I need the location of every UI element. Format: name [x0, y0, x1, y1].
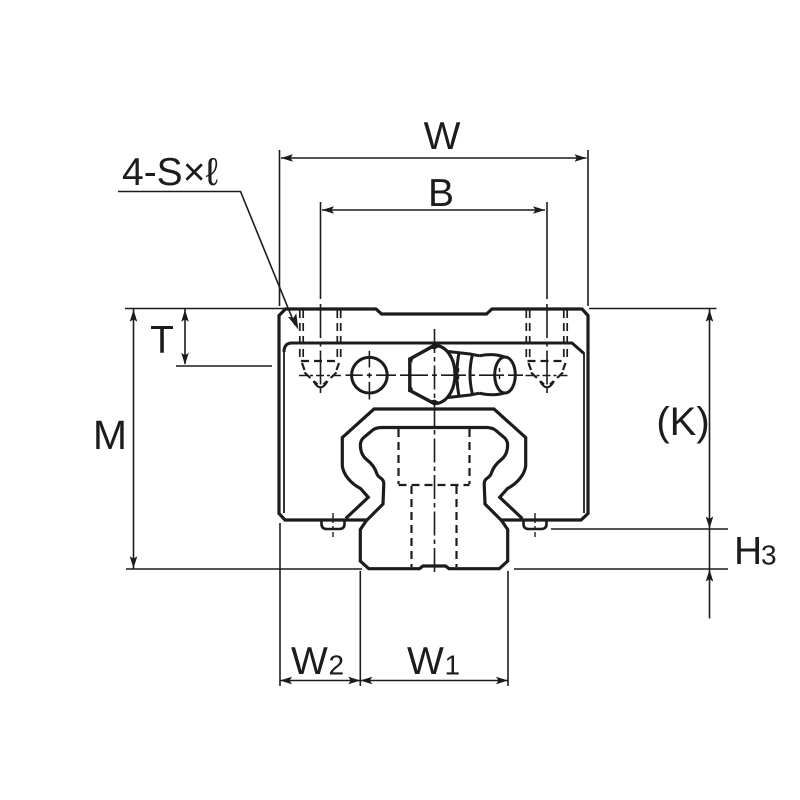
arrow H3-up — [706, 570, 714, 582]
seal lip / inner channel profile — [342, 409, 525, 519]
svg-text:4-S×ℓ: 4-S×ℓ — [122, 151, 218, 194]
block inner edge line right — [583, 353, 585, 513]
svg-text:(K): (K) — [656, 400, 709, 444]
arrow B-left — [322, 206, 334, 214]
circle vertical centerline — [368, 351, 370, 400]
nipple band 2 — [470, 354, 473, 394]
arrow W1-left — [360, 677, 372, 685]
nipple band 1 — [457, 353, 459, 396]
tab centerline left — [332, 513, 334, 537]
arrow M-top — [130, 310, 138, 322]
bolt hole left centerline — [320, 202, 322, 299]
rail mounting-bolt hole hidden lines — [399, 429, 470, 567]
W2/W1 extension line middle — [359, 571, 361, 686]
dimension K line — [709, 309, 711, 619]
arrow T-top — [181, 310, 189, 322]
dimension W line — [281, 157, 587, 159]
hex corner accents — [408, 344, 440, 406]
top extension line right (K) — [589, 308, 717, 310]
K bottom extension line (tab bottom level) — [551, 528, 728, 530]
dimension M line — [133, 309, 135, 569]
rail vertical centerline — [434, 329, 436, 576]
svg-text:M: M — [93, 412, 127, 458]
dimension W2/W1 line — [280, 680, 508, 682]
LM block outer profile — [279, 309, 588, 520]
leader line 4-S x l — [118, 192, 295, 326]
svg-text:1: 1 — [445, 650, 461, 681]
svg-text:T: T — [150, 319, 174, 362]
arrow T-bottom — [181, 353, 189, 365]
svg-text:W: W — [424, 115, 461, 158]
H3 bottom extension line — [514, 568, 728, 570]
dimension B line — [322, 209, 545, 211]
svg-text:B: B — [428, 172, 454, 215]
W2/W1 extension line left — [279, 523, 281, 686]
nipple neck bottom — [448, 393, 480, 397]
svg-text:2: 2 — [329, 650, 345, 681]
svg-text:W: W — [407, 640, 444, 683]
bottom seal tab right — [524, 521, 547, 530]
arrow M-bottom — [130, 556, 138, 568]
block inner edge line left — [283, 351, 285, 513]
arrow W-right — [575, 154, 587, 162]
svg-text:3: 3 — [761, 540, 777, 571]
svg-text:W: W — [291, 640, 328, 683]
nipple neck top — [448, 352, 480, 356]
arrow W1-right — [496, 677, 508, 685]
bolt hole right horizontal center tick — [526, 375, 569, 377]
dimension T line — [184, 309, 186, 364]
bolt hole left (4-S x l) hidden lines — [300, 310, 341, 385]
bolt hole right hidden lines — [526, 310, 567, 385]
dimension W extension line left — [279, 150, 281, 306]
arrow W2-left — [280, 677, 292, 685]
arrow B-right — [533, 206, 545, 214]
grease nipple hex — [410, 345, 435, 403]
dimension W extension line right — [587, 150, 589, 306]
W2/W1 extension line right — [507, 571, 509, 686]
grease nipple dome — [435, 345, 456, 403]
arrow leader — [288, 313, 298, 329]
counterbore circle — [352, 357, 388, 393]
bolt hole right centerline — [546, 202, 548, 299]
nipple center ticks — [458, 368, 460, 381]
arrow W2-right — [348, 677, 360, 685]
arrow W-left — [281, 154, 293, 162]
arrow K-top — [706, 310, 714, 322]
block inner plate line (end-seal boundary) — [284, 343, 584, 354]
bolt hole left horizontal center tick — [299, 375, 342, 377]
M bottom extension line — [126, 568, 362, 570]
bottom seal tab left — [322, 521, 345, 530]
svg-text:H: H — [734, 530, 762, 573]
rail cross-section outline — [360, 428, 507, 569]
horizontal centerline through circle and nipple — [346, 374, 524, 376]
nipple end ellipse — [495, 357, 516, 393]
tab centerline right — [534, 513, 536, 537]
arrow K-bottom — [706, 517, 714, 529]
nipple tip outline — [480, 355, 506, 358]
T lower extension line — [176, 365, 272, 367]
arrowheads — [130, 154, 714, 684]
top extension line left (M,T) — [125, 308, 286, 310]
